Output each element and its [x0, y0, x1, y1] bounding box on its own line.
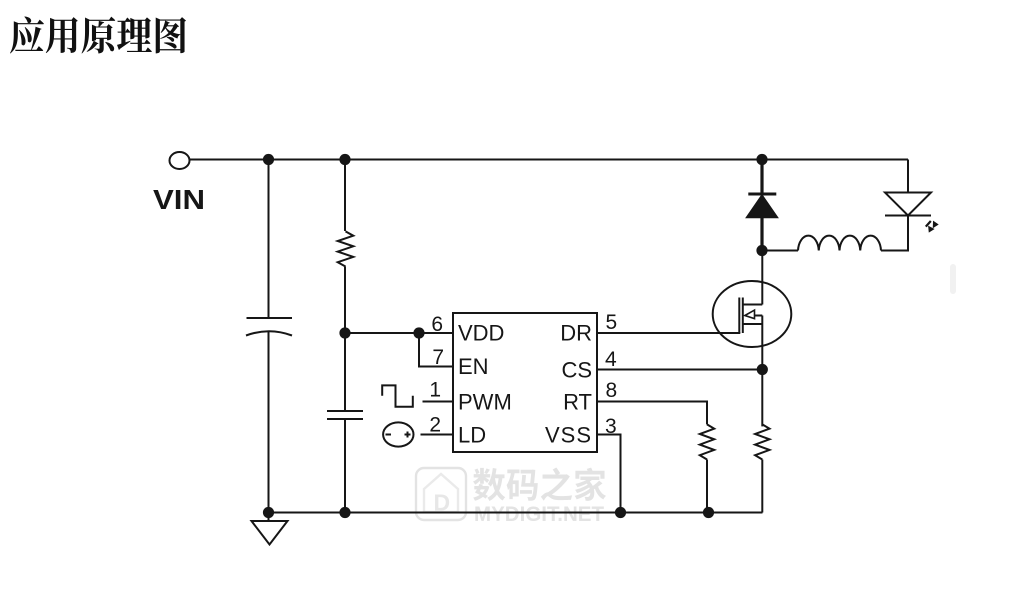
- svg-text:LD: LD: [458, 423, 486, 448]
- mosfet channel bar: [742, 298, 744, 334]
- wire ground stub: [268, 513, 270, 522]
- mosfet body arrow: [745, 310, 755, 319]
- svg-text:6: 6: [431, 313, 443, 336]
- svg-text:5: 5: [606, 311, 618, 334]
- wire LD pin2: [421, 434, 454, 436]
- wire diode to node SW: [760, 217, 763, 251]
- junction dot R2 bottom: [703, 507, 714, 518]
- wire C1 branch upper: [268, 160, 270, 319]
- IC U1 body: [453, 313, 597, 452]
- mosfet drain finger: [743, 304, 763, 306]
- svg-text:EN: EN: [458, 354, 489, 379]
- svg-text:VSS: VSS: [545, 423, 592, 448]
- inductor L1: [798, 236, 881, 251]
- junction dot EN branch: [413, 327, 424, 338]
- svg-text:VDD: VDD: [458, 321, 504, 346]
- svg-text:3: 3: [605, 415, 617, 438]
- LED D2 cathode bar: [885, 215, 931, 217]
- artifact smudge: [950, 264, 956, 294]
- terminal VIN: [170, 152, 190, 169]
- ground symbol: [252, 521, 288, 545]
- svg-text:4: 4: [605, 348, 617, 371]
- diode D1 cathode bar: [748, 193, 776, 196]
- wire PWM pin1: [423, 401, 454, 403]
- wire CS pin4: [597, 369, 762, 371]
- wire R1 branch upper: [344, 160, 346, 232]
- LED arrow 2: [929, 227, 934, 232]
- svg-text:8: 8: [606, 379, 618, 402]
- wire DR pin5 to gate: [597, 332, 740, 334]
- svg-text:PWM: PWM: [458, 390, 512, 415]
- svg-text:RT: RT: [563, 390, 592, 415]
- current source LD symbol circle: [383, 422, 413, 446]
- wire VSS pin3: [597, 435, 621, 513]
- junction dot VSS bottom: [615, 507, 626, 518]
- wire EN branch to pin7: [419, 333, 453, 367]
- svg-text:1: 1: [429, 379, 441, 402]
- junction dot C2 bottom: [339, 507, 350, 518]
- wire C2 to bottom rail: [344, 419, 346, 513]
- resistor R3: [755, 424, 769, 459]
- wire RT pin8: [597, 402, 707, 425]
- junction dot top R1: [339, 154, 350, 165]
- junction dot top diode: [756, 154, 767, 165]
- wire R2 to bottom rail: [706, 460, 708, 513]
- wire inductor to LED branch: [881, 216, 908, 251]
- svg-text:7: 7: [432, 346, 444, 369]
- wire VDD pin6: [345, 332, 453, 334]
- current source plus sign: [405, 432, 411, 438]
- pulse source symbol (PWM): [382, 385, 413, 406]
- wire bottom rail: [269, 512, 763, 514]
- wire R1 to VDD node: [344, 267, 346, 412]
- junction dot CS node: [757, 364, 768, 375]
- junction dot top C1: [263, 154, 274, 165]
- wire R3 to bottom rail: [761, 460, 763, 513]
- resistor R1: [338, 231, 354, 266]
- watermark text 数码之家: [473, 468, 606, 501]
- capacitor C1 curved plate: [246, 331, 292, 335]
- capacitor C2 plate 1: [327, 410, 363, 412]
- mosfet source finger: [743, 323, 763, 325]
- wire node SW into mosfet drain: [761, 251, 763, 305]
- svg-text:DR: DR: [560, 321, 592, 346]
- junction dot ground node: [263, 507, 274, 518]
- mosfet Q1 circle: [713, 281, 792, 347]
- junction dot SW node: [756, 245, 767, 256]
- wire C1 to ground: [268, 332, 270, 513]
- svg-text:CS: CS: [561, 358, 592, 383]
- capacitor C2 plate 2: [327, 418, 363, 420]
- wire diode branch upper: [760, 160, 763, 195]
- wire node SW to inductor: [762, 250, 798, 252]
- diode D1 triangle: [747, 196, 777, 218]
- watermark logo MYDIGIT: [416, 468, 466, 520]
- wire LED branch upper: [907, 160, 909, 193]
- capacitor C1 top plate: [247, 317, 293, 319]
- svg-text:2: 2: [429, 414, 441, 437]
- wire CS node to R3: [761, 370, 763, 427]
- LED arrow 1: [926, 221, 931, 227]
- wire source to CS node: [761, 316, 763, 370]
- svg-text:MYDIGIT.NET: MYDIGIT.NET: [474, 502, 604, 526]
- title 应用原理图: [10, 17, 186, 54]
- mosfet gate bar: [738, 298, 740, 334]
- resistor R2: [700, 424, 714, 459]
- junction dot VDD node: [339, 327, 350, 338]
- svg-text:VIN: VIN: [153, 184, 205, 215]
- LED D2 triangle: [885, 193, 931, 216]
- mosfet body line: [755, 315, 763, 317]
- wire top rail: [190, 159, 909, 161]
- current source minus sign: [386, 434, 392, 436]
